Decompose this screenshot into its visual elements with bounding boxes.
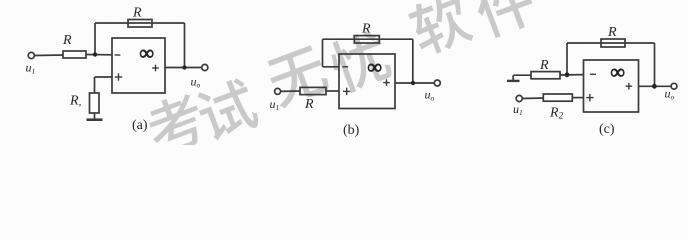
svg-text:u1: u1 (513, 102, 523, 117)
svg-text:(c): (c) (599, 122, 615, 137)
svg-text:u1: u1 (26, 61, 36, 76)
svg-text:uo: uo (425, 87, 435, 102)
svg-text:(b): (b) (343, 123, 360, 138)
svg-text:R,: R, (69, 94, 82, 109)
svg-text:R: R (539, 58, 549, 73)
svg-text:R2: R2 (549, 106, 564, 121)
svg-text:∞: ∞ (611, 61, 625, 83)
svg-text:R: R (304, 97, 314, 112)
svg-text:R: R (607, 25, 617, 40)
svg-text:R: R (132, 6, 142, 21)
svg-text:∞: ∞ (140, 43, 154, 65)
svg-text:u1: u1 (270, 97, 280, 112)
svg-text:uo: uo (191, 75, 201, 90)
svg-text:(a): (a) (132, 118, 148, 133)
svg-text:R: R (361, 22, 371, 37)
svg-text:∞: ∞ (368, 57, 382, 79)
svg-text:R: R (62, 33, 72, 48)
